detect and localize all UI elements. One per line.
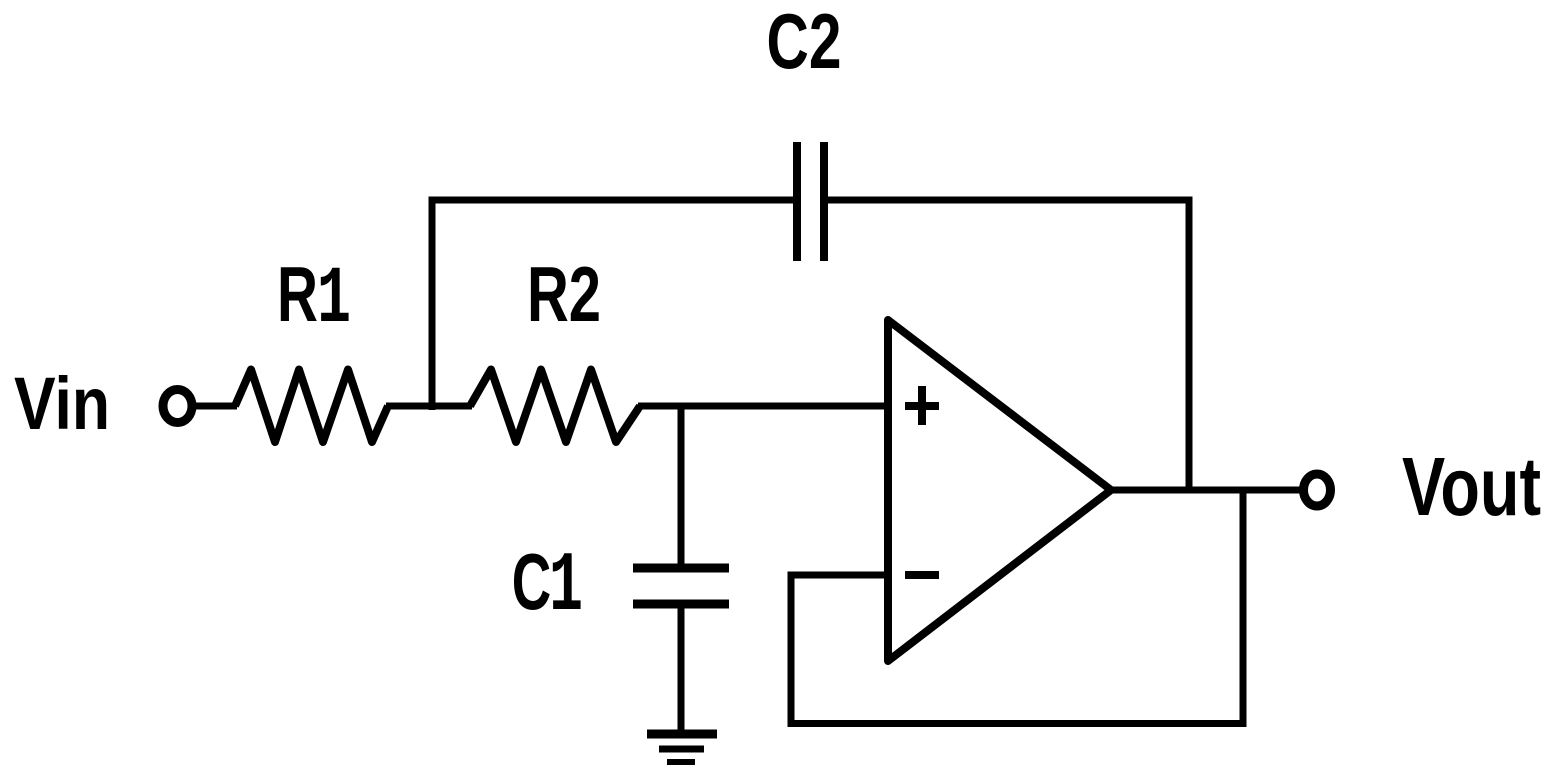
wire op-amp output to terminal: [1110, 487, 1303, 494]
wire R1 to R2 through node A: [386, 403, 472, 410]
wire R2 to op-amp noninverting input through node B: [638, 403, 885, 410]
svg-text:C: C: [512, 537, 552, 626]
svg-text:R2: R2: [527, 250, 601, 338]
svg-text:C2: C2: [767, 0, 842, 85]
ground: [647, 734, 717, 762]
node A vertical wire up to feedback: [429, 197, 436, 410]
node B vertical wire down to C1: [678, 406, 685, 567]
op-amp minus pin: [905, 571, 939, 579]
wire input to R1: [192, 403, 237, 410]
resistor R2: [470, 370, 640, 443]
wire feedback right vertical down to output: [1186, 200, 1193, 490]
svg-text:Vin: Vin: [14, 362, 110, 445]
wire feedback left vertical: [788, 572, 795, 728]
output terminal Vout: [1304, 474, 1331, 506]
wire C1 to ground: [678, 605, 685, 734]
capacitor C2 left plate: [793, 142, 801, 261]
capacitor C2 right plate: [820, 142, 828, 261]
svg-text:R: R: [277, 250, 318, 338]
wire inverting input: [788, 572, 885, 579]
wire feedback top right: [827, 197, 1193, 204]
resistor R1: [235, 370, 388, 443]
op-amp plus pin: [905, 386, 939, 425]
wire feedback output vertical: [1240, 487, 1247, 727]
input terminal Vin: [163, 390, 192, 423]
capacitor C1 top plate: [633, 564, 729, 573]
wire feedback top left: [429, 197, 795, 204]
op-amp U1: [888, 320, 1111, 661]
svg-text:1: 1: [549, 540, 583, 635]
svg-text:Vout: Vout: [1402, 440, 1541, 533]
wire feedback bottom: [788, 720, 1247, 727]
capacitor C1 bottom plate: [633, 600, 729, 609]
svg-text:1: 1: [317, 255, 351, 346]
